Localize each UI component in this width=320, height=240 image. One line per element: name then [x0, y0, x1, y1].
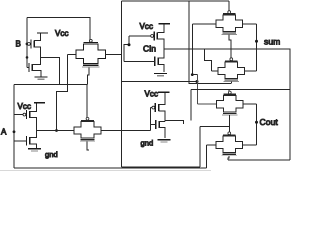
- node Cout dot: [255, 121, 258, 124]
- wire TG5 pmos gate riser: [228, 90, 230, 92]
- wire select net vertical (TG1 output): [122, 1, 201, 167]
- transmission gate TG6: [216, 132, 243, 156]
- transistor Q4 nmos (Cin inverter): [155, 57, 158, 66]
- wire TG6 gate row east: [228, 159, 290, 161]
- wire TG4 nmos gate down: [230, 82, 232, 84]
- wire select row to TG5 pmos gate: [191, 89, 290, 91]
- wire TG6 input riser from bottom rail: [206, 145, 208, 168]
- svg-text:Vcc: Vcc: [55, 29, 69, 38]
- svg-text:A: A: [1, 127, 7, 136]
- wire B vertical input: [26, 18, 28, 68]
- junction dot TG3 net: [191, 73, 194, 76]
- wire Q5 drain to Vcc: [30, 103, 37, 111]
- wire Q6 drain to output: [30, 131, 37, 138]
- ground (A inverter): [28, 149, 41, 151]
- svg-text:Cout: Cout: [260, 117, 279, 127]
- transmission gate TG2: [74, 117, 101, 141]
- wire Q2 gate lead: [27, 67, 29, 69]
- wire bottom rail: [14, 167, 207, 169]
- transistor Q7 pmos (inv4): [155, 103, 158, 112]
- wire TG1 left lead: [68, 53, 77, 55]
- wire Q7 source to output: [159, 111, 166, 122]
- node sum dot: [255, 40, 258, 43]
- ground (inv4): [158, 140, 171, 142]
- wire TG5 right lead: [243, 103, 256, 105]
- wire select net top route: [122, 0, 230, 2]
- wire Q3 gate lead: [129, 35, 151, 37]
- wire Q6 gate lead: [14, 140, 27, 142]
- wire Cin input branch: [124, 36, 129, 61]
- wire Q6 source down: [30, 144, 37, 149]
- wire TG4 right lead: [245, 70, 257, 72]
- wire Bbar riser to TG1 nmos gate: [88, 66, 90, 84]
- wire Q2 drain to output: [32, 57, 41, 64]
- wire inv4 output route: [165, 120, 183, 124]
- svg-text:Vcc: Vcc: [145, 90, 159, 99]
- node B port dot: [26, 43, 29, 46]
- transistor Q3 pmos (Cin inverter): [154, 31, 157, 40]
- wire TG1 right lead to select net: [106, 53, 122, 55]
- wire Abar output row: [36, 130, 74, 132]
- wire select row to TG5 input: [122, 81, 198, 83]
- wire TG3 nmos gate down: [229, 35, 231, 58]
- transmission gate TG4: [218, 58, 245, 82]
- power Vcc rail (A inverter): [34, 102, 45, 104]
- svg-text:gnd: gnd: [141, 139, 154, 148]
- wire inv4 input riser: [150, 108, 152, 131]
- wire Q5 gate lead: [14, 114, 23, 116]
- wire Q1 gate lead: [26, 43, 29, 45]
- wire Q4 gate lead: [124, 60, 155, 62]
- svg-text:Vcc: Vcc: [140, 22, 154, 31]
- wire Q3 source to output: [157, 39, 164, 49]
- svg-text:gnd: gnd: [45, 150, 58, 159]
- wire gray drop to TG5 left lead: [197, 75, 216, 105]
- wire TG2 nmos gate down hook: [87, 141, 89, 150]
- wire TG5/TG6 gate row: [200, 125, 229, 127]
- wire Q8 source down: [159, 128, 165, 138]
- transistor Q5 pmos (A inverter): [27, 110, 30, 119]
- ground (B inverter): [35, 77, 48, 79]
- wire Q2 source down: [32, 71, 41, 77]
- wire TG4 left lead: [211, 70, 218, 72]
- wire gate row drop to bottom: [199, 126, 201, 167]
- transmission gate TG3: [216, 11, 243, 35]
- wire TG3 left lead: [192, 23, 216, 25]
- wire B to TG1 pmos gate (top route): [27, 18, 90, 40]
- wire Q7 drain to Vcc: [159, 93, 166, 105]
- wire sbar vertical down: [190, 90, 192, 121]
- transmission gate TG5: [216, 91, 243, 115]
- wire TG1 input riser down: [57, 54, 68, 130]
- wire Cout vertical: [256, 104, 258, 145]
- junction dot select/TG5 input: [196, 80, 199, 83]
- wire Q3 drain to Vcc: [157, 24, 164, 32]
- wire left edge vertical (Bbar down left): [13, 84, 15, 168]
- power Vcc rail (Cin inverter): [159, 23, 170, 25]
- power Vcc rail (B inverter): [37, 32, 48, 34]
- wire TG2 right lead to inv4 input: [101, 130, 151, 132]
- svg-text:sum: sum: [264, 37, 280, 47]
- transistor Q6 nmos (A inverter): [27, 136, 30, 145]
- wire Cinbar drop to TG4 input: [204, 49, 211, 71]
- power Vcc rail (inv4): [158, 91, 169, 93]
- node Cin port dot: [128, 43, 131, 46]
- wire Cinbar output row: [164, 48, 290, 50]
- junction on B wire: [26, 56, 29, 59]
- wire TG3 right lead: [243, 23, 257, 25]
- border artifact line: [0, 170, 211, 172]
- wire TG3 input riser (Bbar net): [191, 24, 193, 75]
- wire select right route: [231, 49, 290, 160]
- wire Bbar output route: [41, 57, 60, 84]
- wire TG3 pmos gate from top: [228, 1, 230, 11]
- junction TG1 input on A row: [55, 129, 58, 132]
- ground (Cin inverter): [154, 73, 167, 75]
- wire Q1 source to output: [34, 47, 41, 57]
- wire Bbar down to TG2 pmos gate: [86, 84, 88, 119]
- wire TG6 right lead: [243, 144, 257, 146]
- transistor Q1 pmos (B inverter): [31, 39, 34, 48]
- wire Bbar row to TG gates: [14, 83, 88, 85]
- transistor Q2 nmos (B inverter): [29, 63, 32, 72]
- node A port dot: [13, 130, 16, 133]
- svg-text:B: B: [16, 40, 21, 49]
- wire Q1 drain to Vcc: [34, 33, 41, 41]
- wire Q5 source to output: [30, 118, 37, 131]
- wire Q8 gate lead: [151, 123, 156, 125]
- transistor Q8 nmos (inv4): [156, 120, 159, 129]
- wire TG6 pmos gate riser: [228, 126, 230, 132]
- transmission gate TG1: [76, 39, 105, 67]
- wire sum vertical: [256, 24, 258, 71]
- wire Q8 drain to output: [159, 121, 165, 123]
- wire TG6 nmos gate down: [228, 156, 229, 160]
- wire Q4 drain to output: [158, 49, 164, 58]
- wire select branch down at 189: [189, 1, 231, 84]
- wire Q4 source down: [158, 64, 164, 72]
- wire dot east to gray drop: [192, 74, 197, 76]
- wire Q7 gate lead: [151, 107, 152, 109]
- svg-text:Vcc: Vcc: [18, 102, 32, 111]
- wire TG6 left lead: [207, 144, 217, 146]
- wire TG5 nmos gate down: [228, 115, 230, 126]
- svg-text:Cin: Cin: [143, 44, 156, 54]
